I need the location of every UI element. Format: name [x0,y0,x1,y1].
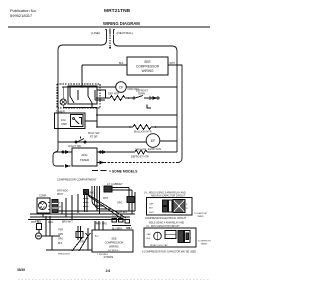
defrost termination switch [133,90,148,100]
svg-text:R: R [186,208,188,210]
svg-text:5995218317: 5995218317 [58,254,71,256]
wire evap fan to neutral bus [160,140,177,142]
publication number text [10,8,37,18]
wire vertical x70 [69,87,71,96]
connector pair column [83,195,89,212]
svg-text:LIGHT SW: LIGHT SW [68,144,81,148]
label NEUTRAL [117,31,134,35]
resistor defrost heater [110,96,125,101]
wire neutral-side cord [114,35,178,153]
node dot [128,97,130,99]
extra harness labels [96,212,128,226]
svg-text:ADC: ADC [81,153,88,157]
caption block1 line2 [151,195,186,198]
footer page code [17,268,25,272]
block2 right text [190,234,192,240]
door switch blade 2 [88,96,92,103]
svg-text:TIMER: TIMER [80,158,90,162]
label drain heater [135,149,146,152]
svg-text:GRN: GRN [80,242,85,244]
wire dashed return row [104,162,176,164]
svg-text:U.L. MDLS USING 3 ARM RELAY AN: U.L. MDLS USING 3 ARM RELAY AND [144,192,186,195]
block2 outline with dark center [185,231,191,243]
svg-text:DEF HTR: DEF HTR [108,92,119,96]
wire top row through switch cluster [62,86,116,88]
svg-text:35/36: 35/36 [17,268,25,272]
harness verticals [97,186,100,214]
svg-text:CF: CF [119,86,124,90]
cond fan motor [116,82,127,93]
plug prong left [105,29,106,34]
plug prong center [109,29,111,35]
block1 right text [186,204,188,210]
svg-text:S: S [59,203,61,205]
part number under box [97,254,114,259]
svg-text:TIMER: TIMER [201,244,208,246]
svg-text:TIMER: TIMER [197,216,204,218]
svg-text:PROT: PROT [57,194,64,196]
wire drops from compressor cluster [43,195,72,220]
svg-text:COMP: COMP [39,195,47,198]
wire from timer to mullion row [85,121,97,127]
wire vertical x78 [77,90,79,100]
block1 dark square 1 [163,200,168,206]
label comp [39,195,47,198]
header rule [8,26,210,28]
terminal arrows upper left [62,151,69,153]
wire switch cluster out right [92,100,105,108]
svg-text:S: S [190,234,192,236]
svg-text:(NEUTRAL): (NEUTRAL) [117,31,134,35]
svg-text:WHT: WHT [149,212,154,214]
jog mark [147,105,151,109]
inner switch box [68,86,97,104]
terminal labels S M R [59,203,61,213]
block1 dark square 2 [163,207,168,213]
svg-text:= SOME MODELS: = SOME MODELS [109,169,138,173]
caption below block1 [145,217,187,220]
wire light switch row [58,141,147,143]
wire middle row [96,114,177,116]
light switch [75,137,86,144]
caption block2 line2 [146,225,180,228]
svg-text:ORG: ORG [48,222,53,224]
terminal arrows into compressor [48,202,51,211]
wire compressor box left [82,64,127,66]
connector pair lower [76,226,83,240]
svg-text:5995218317: 5995218317 [10,13,33,18]
wire compressor box right to line bus [168,65,182,163]
harness left curves [92,186,112,209]
label defrost timer lower [112,216,123,218]
wire bulb bottom [63,105,92,107]
cabinet harness corner verticals [129,188,135,215]
wire after mullion resistor [151,126,177,128]
wire vertical x88 [87,87,89,96]
connector texts [90,193,123,205]
svg-text:270049: 270049 [104,255,114,259]
side note to overload 1 [194,213,208,218]
node dots on top row [69,86,89,88]
caption below block2 [142,251,197,254]
defrost heater element [135,150,147,154]
cabinet connector dark block [104,186,112,192]
wire cond fan row to neutral bus [126,86,177,88]
timer contact [73,118,82,125]
node dots mullion row [96,126,156,128]
svg-text:S: S [186,204,188,206]
wire bulb feed [62,87,64,99]
label cond fan [128,88,139,91]
label mull switch [88,132,100,139]
door switch dashed enclosure [57,84,100,108]
block2 frame [144,228,196,247]
block2 center box [165,231,176,239]
bottom left horizontal [46,236,92,250]
door switch blade 1 [70,96,74,103]
svg-text:SEE: SEE [144,60,150,64]
vertical from label text [77,194,79,213]
svg-text:WIRING DIAGRAM: WIRING DIAGRAM [103,21,140,26]
wire lower adc row dashed [97,161,104,163]
label defrost heater [131,156,149,159]
caption block1 line1 [144,192,186,195]
label motor winding protector [57,191,68,196]
block2 inner left texts [147,233,152,240]
svg-text:A-2: A-2 [95,235,99,238]
bottom left text [58,254,71,256]
svg-text:TO DEFROST: TO DEFROST [198,241,212,243]
compressor wiring reference box [127,57,168,75]
block1 inner left texts [149,203,154,215]
wire diagonals into lower box [72,236,88,251]
svg-text:A COMPRESSOR RUN CAPACITOR MAY: A COMPRESSOR RUN CAPACITOR MAY BE USED [142,251,197,254]
svg-text:ORG: ORG [117,202,122,204]
wire diagonals harness [84,192,126,219]
compressor enclosure box [37,198,50,213]
wire lower row into adc [62,165,72,167]
block1 frame [147,198,193,216]
wire left bus to defrost rows bracket [53,142,62,166]
wire bus band [58,210,135,212]
block2 dark block [178,231,184,243]
svg-text:CAP: CAP [149,203,154,206]
band wire labels [31,222,133,230]
left small parts GRN clamp [35,220,42,240]
cabinet harness horizontals [112,188,132,191]
label evap fan [148,147,161,151]
svg-text:10A: 10A [61,118,66,122]
svg-text:TERM: TERM [138,93,145,96]
cold control timer box [56,110,66,114]
legend some models [92,169,138,173]
svg-text:RELAY OVLD CAP: RELAY OVLD CAP [150,244,168,247]
small dark part [127,197,135,203]
lower compressor wiring box [92,230,133,252]
svg-text:LT. CABINET: LT. CABINET [107,182,123,186]
label compressor compartment [57,178,97,182]
refrigerator light bulb [60,99,66,105]
block2 capacitor circle [154,232,162,240]
resistor mullion heater [133,125,151,130]
wire after resistor [125,97,133,99]
block1 narrow outline box [169,200,173,212]
svg-text:WHT: WHT [103,198,109,200]
wire adc upper out [97,151,135,153]
wire color text stack [58,230,63,246]
compressor motor [39,202,47,210]
side note to defrost timer 2 [198,241,212,246]
svg-text:CMP: CMP [61,122,67,126]
svg-text:DEFROST HTR: DEFROST HTR [131,156,149,159]
terminal arrows lower left [66,165,69,167]
footer page number [106,268,111,273]
wire upper row into adc [55,151,72,153]
svg-text:BLK: BLK [58,243,63,245]
svg-text:MULLION HTR: MULLION HTR [134,130,152,134]
block2 bottom inner text [150,244,168,247]
svg-text:BLK: BLK [147,238,152,240]
svg-text:COMPRESSOR: COMPRESSOR [136,65,160,69]
left verticals [42,216,60,236]
plug prong right [114,29,115,34]
wire step from switch cluster [92,108,97,122]
svg-text:TO DEFROST: TO DEFROST [194,213,208,215]
ground lead with arrowhead [109,35,111,50]
label light switch [68,144,81,148]
svg-text:BRN WHT: BRN WHT [62,222,73,224]
svg-text:BLK: BLK [119,62,124,65]
connector cluster mid [112,219,131,231]
connector block small left [84,190,89,195]
wire upper row to right bracket [147,151,177,153]
ticks above box [95,221,103,230]
wire mullion heater row [97,126,133,128]
svg-text:EF: EF [151,139,155,143]
svg-text:FZ DR: FZ DR [90,136,98,139]
svg-text:ORG: ORG [58,239,63,241]
svg-text:CAP: CAP [147,233,152,236]
caption block2 line1 [149,222,184,225]
quick connect terminals [149,97,159,99]
svg-text:COMPRESSOR: COMPRESSOR [105,241,124,245]
wire line-side cord [58,34,107,142]
svg-text:SEE: SEE [111,237,116,241]
wire step to defrost row [97,90,106,98]
start relay hatched connector [52,200,58,213]
svg-text:WIRING: WIRING [142,69,154,73]
svg-text:R: R [190,238,192,240]
wire ground lead [86,228,91,250]
terminal arrow upper right [100,151,106,153]
label LINE [91,31,100,35]
svg-text:- 5W MDLS -: - 5W MDLS - [107,250,120,252]
svg-text:BLK: BLK [149,208,154,210]
svg-text:MRT21TNB: MRT21TNB [104,8,131,14]
svg-text:TMR: TMR [58,230,63,232]
svg-text:BLK: BLK [126,228,131,230]
block1 relay component hatched [173,200,185,213]
evap fan motor [146,134,160,148]
wire vertical x95 [94,90,96,100]
timer inner contact box [71,115,84,127]
adaptive defrost control box [72,148,97,166]
wire defrost heater row [96,97,110,99]
svg-text:COMPRESSOR COMPARTMENT: COMPRESSOR COMPARTMENT [57,178,97,182]
svg-text:EVAP FAN: EVAP FAN [148,147,161,151]
svg-text:MDLS USING 4 ARM RELAY AND: MDLS USING 4 ARM RELAY AND [149,222,184,225]
wire branch down from line node [81,65,83,87]
svg-text:M: M [59,207,61,209]
wiring diagram title [103,21,140,26]
svg-text:COMPRESSOR ELECTRICAL CIRCUIT: COMPRESSOR ELECTRICAL CIRCUIT [145,217,187,220]
label lt cabinet [107,182,123,186]
svg-text:WIRING: WIRING [109,245,119,249]
svg-text:MTR WDG: MTR WDG [57,191,68,193]
scan artifact dotted line [18,279,210,281]
svg-text:(LINE): (LINE) [91,31,100,35]
svg-text:GRN: GRN [35,220,41,223]
svg-text:24: 24 [106,268,111,273]
model number title [104,8,131,14]
